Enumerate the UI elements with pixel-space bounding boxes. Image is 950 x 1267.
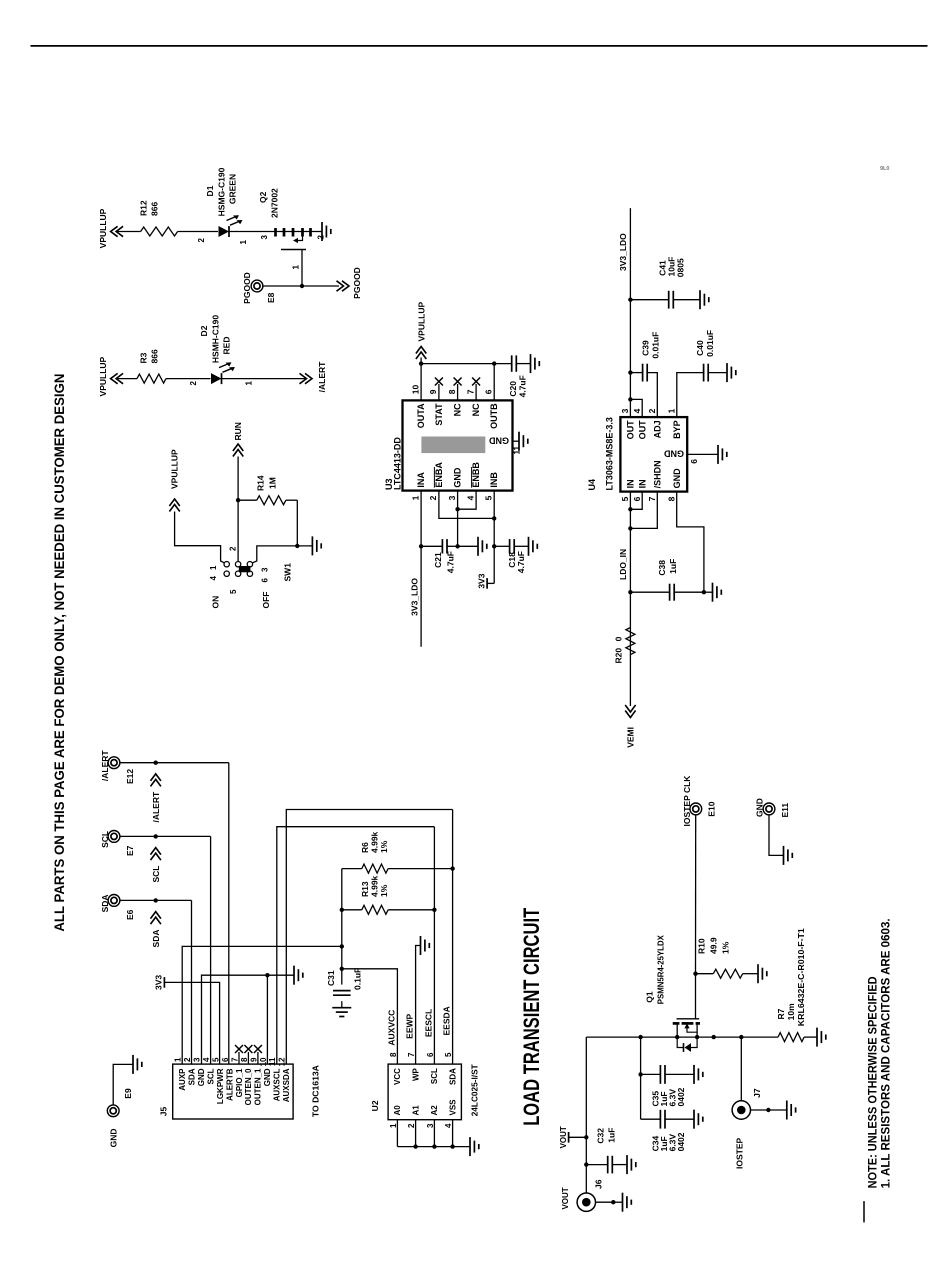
wire J5 pin4 SCL bbox=[210, 836, 212, 1064]
svg-text:11: 11 bbox=[268, 1057, 277, 1066]
svg-text:1: 1 bbox=[410, 495, 420, 500]
svg-text:0.01uF: 0.01uF bbox=[705, 330, 715, 357]
ground (SW1) bbox=[311, 536, 313, 555]
net flag VPULLUP (chain D2) bbox=[98, 356, 123, 396]
svg-text:0: 0 bbox=[613, 636, 623, 641]
wire VPULLUP to R3 bbox=[116, 378, 137, 380]
svg-text:2: 2 bbox=[428, 495, 438, 500]
svg-text:5: 5 bbox=[444, 1052, 453, 1057]
svg-text:5: 5 bbox=[229, 589, 238, 594]
svg-text:OUT: OUT bbox=[637, 420, 647, 440]
svg-text:PGOOD: PGOOD bbox=[242, 272, 252, 304]
svg-text:OFF: OFF bbox=[261, 592, 271, 609]
capacitor C40 bbox=[677, 330, 727, 417]
capacitor C21 bbox=[421, 539, 458, 573]
resistor R14 bbox=[238, 475, 297, 505]
svg-text:ENBB: ENBB bbox=[471, 462, 481, 488]
resistor R12 bbox=[139, 200, 178, 236]
svg-text:6: 6 bbox=[689, 459, 699, 464]
svg-text:6: 6 bbox=[483, 389, 493, 394]
svg-text:NC: NC bbox=[471, 403, 481, 416]
wire J5 pin2 SDA bbox=[191, 900, 193, 1064]
svg-text:2: 2 bbox=[229, 546, 238, 551]
capacitor C31 bbox=[326, 968, 363, 995]
svg-text:D1: D1 bbox=[205, 185, 215, 196]
ground (R10) bbox=[757, 964, 759, 983]
wire 3V3_LDO from U3 pin1 bbox=[420, 491, 422, 647]
svg-text:EEWP: EEWP bbox=[405, 1013, 415, 1038]
svg-text:0.01uF: 0.01uF bbox=[650, 332, 660, 359]
svg-text:OUTEN_0: OUTEN_0 bbox=[244, 1068, 253, 1105]
svg-text:2: 2 bbox=[317, 234, 326, 239]
svg-text:C40: C40 bbox=[695, 340, 705, 356]
net flag PGOOD bbox=[337, 267, 363, 299]
ground (J6) bbox=[622, 1193, 624, 1212]
svg-text:TO DC1613A: TO DC1613A bbox=[311, 1065, 321, 1117]
svg-text:0402: 0402 bbox=[676, 1132, 686, 1151]
ground (Q2 source) bbox=[318, 222, 331, 241]
svg-text:ENBA: ENBA bbox=[434, 462, 444, 488]
svg-text:A0: A0 bbox=[393, 1105, 402, 1116]
ground (C34) bbox=[693, 1110, 695, 1129]
svg-text:VOUT: VOUT bbox=[559, 1126, 568, 1148]
svg-text:VSS: VSS bbox=[448, 1099, 457, 1116]
wire J5 pin3 GND bbox=[202, 975, 295, 1064]
ground (E11) bbox=[783, 846, 785, 865]
wire J5 pin6 ALERTB bbox=[228, 763, 230, 1064]
svg-text:1: 1 bbox=[389, 1123, 398, 1128]
wire EESCL U2 pin6 bbox=[433, 827, 435, 1064]
svg-text:8: 8 bbox=[389, 1052, 398, 1057]
ground (C35) bbox=[693, 1065, 695, 1084]
svg-text:2: 2 bbox=[183, 1057, 192, 1062]
wire /SHDN U4 pin7 bbox=[630, 492, 657, 529]
svg-text:OUTB: OUTB bbox=[489, 403, 499, 429]
svg-text:IOSTEP CLK: IOSTEP CLK bbox=[682, 775, 692, 827]
svg-text:10: 10 bbox=[259, 1057, 268, 1066]
net flag SCL bbox=[151, 848, 161, 883]
net flag /ALERT (chain D2) bbox=[300, 361, 328, 393]
svg-text:E6: E6 bbox=[125, 909, 135, 920]
ground (J5 GND) bbox=[293, 966, 295, 985]
wire RUN to SW1 pin2 bbox=[237, 457, 239, 562]
wire SDA net bbox=[120, 899, 192, 901]
svg-text:2: 2 bbox=[407, 1123, 416, 1128]
svg-text:VCC: VCC bbox=[393, 1068, 402, 1085]
svg-text:4: 4 bbox=[632, 408, 642, 413]
svg-text:3V3: 3V3 bbox=[477, 573, 487, 588]
svg-text:1%: 1% bbox=[379, 884, 389, 897]
ground (EEWP) bbox=[420, 936, 422, 955]
svg-text:STAT: STAT bbox=[434, 403, 444, 426]
svg-text:R13: R13 bbox=[360, 881, 370, 897]
wire AUXP pullup rail bbox=[341, 1001, 343, 1008]
svg-text:3: 3 bbox=[447, 495, 457, 500]
svg-text:A1: A1 bbox=[411, 1105, 420, 1116]
turret E12 /ALERT bbox=[100, 750, 135, 784]
wire R12 to D1 bbox=[178, 231, 218, 233]
wire J5 pin12 AUXSDA bbox=[286, 810, 452, 1065]
svg-text:E11: E11 bbox=[780, 803, 790, 818]
svg-text:4.7uF: 4.7uF bbox=[446, 551, 456, 573]
wire J5 pin1 AUXP bbox=[182, 946, 342, 1064]
ground (C31) bbox=[332, 1007, 351, 1009]
svg-text:GND: GND bbox=[672, 468, 682, 489]
svg-text:2: 2 bbox=[197, 237, 206, 242]
net flag VPULLUP (SW1) bbox=[169, 449, 179, 512]
regulator U4 LT3063-MS8E-3.3 bbox=[587, 408, 687, 501]
svg-text:R6: R6 bbox=[360, 842, 370, 853]
svg-text:VOUT: VOUT bbox=[561, 1187, 570, 1209]
ground (C18) bbox=[528, 537, 530, 556]
svg-text:11: 11 bbox=[513, 445, 522, 454]
svg-text:SCL: SCL bbox=[430, 1068, 439, 1084]
svg-text:IOSTEP: IOSTEP bbox=[735, 1137, 745, 1169]
diode D2 (LED red) bbox=[189, 315, 254, 386]
svg-text:7: 7 bbox=[230, 1057, 239, 1062]
pin 11 ground U3 bbox=[513, 432, 528, 455]
wire D1 to Q2 bbox=[229, 231, 273, 233]
svg-text:GND: GND bbox=[109, 1129, 119, 1148]
svg-text:GREEN: GREEN bbox=[228, 174, 238, 204]
svg-text:1: 1 bbox=[209, 565, 218, 570]
net flag VPULLUP (chain D1) bbox=[98, 208, 123, 248]
svg-text:EESDA: EESDA bbox=[442, 1006, 452, 1035]
net flag /ALERT (E12) bbox=[151, 774, 161, 823]
wire PGOOD bbox=[263, 285, 339, 287]
wire U2 pins 1-4 to ground rail bbox=[396, 1120, 398, 1147]
resistor R6 bbox=[342, 831, 453, 873]
svg-text:AUXP: AUXP bbox=[178, 1068, 187, 1091]
border rule bbox=[31, 45, 928, 47]
svg-text:PSMN5R4-25YLDX: PSMN5R4-25YLDX bbox=[655, 935, 665, 1004]
svg-text:8: 8 bbox=[240, 1057, 249, 1062]
svg-text:0.1uF: 0.1uF bbox=[353, 968, 363, 990]
svg-text:R20: R20 bbox=[614, 648, 624, 664]
svg-text:3: 3 bbox=[426, 1123, 435, 1128]
wire E11 to ground bbox=[769, 815, 784, 856]
svg-text:SW1: SW1 bbox=[283, 563, 293, 582]
svg-text:7: 7 bbox=[407, 1052, 416, 1057]
capacitor C35 bbox=[641, 1065, 694, 1107]
ground (C38) bbox=[704, 583, 721, 602]
svg-text:4: 4 bbox=[444, 1123, 453, 1128]
svg-text:5: 5 bbox=[483, 495, 493, 500]
wire R3 to D2 bbox=[166, 378, 211, 380]
svg-text:8: 8 bbox=[667, 496, 677, 501]
svg-text:LDO_IN: LDO_IN bbox=[618, 549, 628, 580]
capacitor C39 bbox=[630, 332, 660, 417]
no-connect pins U3 9,8,7 bbox=[435, 378, 480, 401]
wire VPULLUP to SW1 pin1 bbox=[175, 512, 225, 563]
wire J7 to ground bbox=[751, 1109, 769, 1111]
wire SCL net bbox=[120, 835, 211, 837]
jack J7 IOSTEP bbox=[732, 1037, 762, 1169]
svg-text:3V3_LDO: 3V3_LDO bbox=[618, 233, 628, 271]
svg-text:AUXVCC: AUXVCC bbox=[387, 1010, 397, 1046]
ground (C40) bbox=[726, 363, 728, 382]
wire J6 to ground bbox=[596, 1201, 614, 1203]
wire J5 pin11 AUXSCL bbox=[277, 827, 435, 1064]
svg-text:GND: GND bbox=[197, 1068, 206, 1086]
pin 6 ground U4 bbox=[687, 445, 727, 464]
ground (R7) bbox=[816, 1028, 818, 1047]
wire OUTA rail bbox=[420, 364, 422, 401]
wire VOUT bus down bbox=[586, 1036, 677, 1038]
svg-text:OUTEN_1: OUTEN_1 bbox=[254, 1068, 263, 1105]
wire ENBA U3 pin2 bbox=[439, 491, 494, 519]
svg-text:5: 5 bbox=[620, 496, 630, 501]
svg-text:6: 6 bbox=[426, 1052, 435, 1057]
svg-text:1uF: 1uF bbox=[607, 1128, 617, 1143]
capacitor C41 bbox=[630, 257, 700, 309]
svg-text:E8: E8 bbox=[266, 292, 276, 303]
svg-text:LGKPWR: LGKPWR bbox=[216, 1068, 225, 1104]
svg-text:4: 4 bbox=[202, 1057, 211, 1062]
svg-text:1%: 1% bbox=[379, 840, 389, 853]
svg-text:KRL6432E-C-R010-F-T1: KRL6432E-C-R010-F-T1 bbox=[796, 928, 806, 1026]
resistor R3 bbox=[137, 349, 166, 383]
net flag SDA bbox=[151, 912, 161, 948]
svg-text:7: 7 bbox=[465, 389, 475, 394]
svg-text:BYP: BYP bbox=[672, 420, 682, 439]
svg-text:1: 1 bbox=[245, 380, 254, 385]
turret E7 SCL bbox=[100, 831, 135, 857]
net flag VEMI bbox=[625, 705, 635, 748]
power tap 3V3 (U3) bbox=[477, 573, 495, 588]
svg-text:10: 10 bbox=[410, 384, 420, 394]
wire OUT U4 pin4 bbox=[630, 399, 642, 417]
svg-text:866: 866 bbox=[150, 202, 160, 216]
capacitor C18 bbox=[494, 539, 528, 573]
svg-text:U4: U4 bbox=[587, 479, 597, 491]
jack J6 VOUT bbox=[561, 1179, 604, 1211]
svg-text:VPULLUP: VPULLUP bbox=[170, 449, 180, 489]
svg-text:6: 6 bbox=[261, 578, 270, 583]
svg-text:E12: E12 bbox=[125, 769, 135, 784]
svg-text:R3: R3 bbox=[139, 352, 149, 363]
svg-text:HSMG-C190: HSMG-C190 bbox=[217, 167, 227, 216]
svg-text:C21: C21 bbox=[433, 552, 443, 568]
svg-text:D2: D2 bbox=[199, 325, 209, 336]
svg-text:GND: GND bbox=[664, 449, 685, 459]
svg-text:GND: GND bbox=[754, 798, 764, 817]
svg-text:1: 1 bbox=[239, 239, 248, 244]
svg-text:8: 8 bbox=[447, 389, 457, 394]
svg-text:9: 9 bbox=[428, 389, 438, 394]
svg-text:9: 9 bbox=[249, 1057, 258, 1062]
wire Q1 source bus bbox=[697, 1036, 778, 1038]
svg-text:ADJ: ADJ bbox=[652, 420, 662, 438]
net flag RUN bbox=[233, 422, 243, 456]
svg-text:7: 7 bbox=[647, 496, 657, 501]
ground (U2) bbox=[469, 1137, 471, 1156]
svg-text:NOTE: UNLESS OTHERWISE SPECIFI: NOTE: UNLESS OTHERWISE SPECIFIED bbox=[868, 976, 880, 1188]
wire OUT rail 3V3_LDO bbox=[629, 208, 631, 417]
svg-text:C38: C38 bbox=[657, 560, 667, 576]
wire INB U3 pin5 bbox=[493, 491, 495, 584]
svg-text:C31: C31 bbox=[326, 970, 336, 986]
svg-text:GND: GND bbox=[263, 1068, 272, 1086]
svg-text:IN: IN bbox=[626, 479, 636, 488]
capacitor C34 bbox=[641, 1110, 694, 1152]
resistor R10 bbox=[696, 937, 759, 978]
svg-text:LT3063-MS8E-3.3: LT3063-MS8E-3.3 bbox=[605, 417, 615, 490]
svg-text:U2: U2 bbox=[370, 1100, 380, 1111]
svg-text:RED: RED bbox=[222, 337, 232, 355]
ground (C20) bbox=[530, 354, 532, 373]
connector J5 bbox=[159, 1057, 321, 1119]
wire LDO_IN rail bbox=[629, 492, 631, 706]
resistor R20 bbox=[613, 628, 635, 664]
wire IN U4 pin6 bbox=[630, 492, 642, 510]
svg-text:GND: GND bbox=[453, 467, 463, 488]
svg-text:1M: 1M bbox=[268, 477, 278, 489]
svg-text:E10: E10 bbox=[707, 801, 717, 816]
svg-text:SDA: SDA bbox=[188, 1068, 197, 1085]
svg-text:OUTA: OUTA bbox=[416, 403, 426, 428]
ground (C41) bbox=[699, 290, 701, 309]
svg-text:1%: 1% bbox=[721, 941, 731, 954]
svg-text:E7: E7 bbox=[125, 845, 135, 856]
wire EEWP U2 pin7 bbox=[416, 946, 421, 1065]
wire ENBB U3 pin4 bbox=[458, 491, 477, 510]
svg-text:6: 6 bbox=[632, 496, 642, 501]
wire C34 C35 branch bbox=[640, 1037, 642, 1119]
ground (J7) bbox=[786, 1101, 788, 1120]
svg-text:LTC4413-DD: LTC4413-DD bbox=[393, 437, 403, 490]
svg-text:ALL PARTS ON THIS PAGE ARE FOR: ALL PARTS ON THIS PAGE ARE FOR DEMO ONLY… bbox=[52, 374, 67, 932]
svg-text:OUT: OUT bbox=[626, 420, 636, 440]
svg-text:EESCL: EESCL bbox=[424, 1009, 434, 1037]
svg-text:Q2: Q2 bbox=[258, 191, 268, 203]
footer tick bbox=[863, 1201, 865, 1222]
svg-text:3V3_LDO: 3V3_LDO bbox=[410, 578, 420, 616]
svg-text:R10: R10 bbox=[697, 938, 707, 954]
svg-text:12: 12 bbox=[278, 1057, 287, 1066]
svg-text:1uF: 1uF bbox=[668, 559, 678, 574]
wire E9 to ground bbox=[113, 1064, 133, 1105]
wire VOUT rail bbox=[585, 1037, 587, 1193]
svg-text:R14: R14 bbox=[256, 475, 266, 491]
svg-text:VPULLUP: VPULLUP bbox=[416, 302, 426, 342]
transistor Q1 bbox=[644, 935, 700, 1052]
svg-text:VPULLUP: VPULLUP bbox=[98, 208, 108, 248]
svg-text:INB: INB bbox=[489, 472, 499, 488]
svg-text:GND: GND bbox=[489, 436, 510, 446]
svg-text:2: 2 bbox=[189, 380, 198, 385]
svg-text:LOAD TRANSIENT CIRCUIT: LOAD TRANSIENT CIRCUIT bbox=[519, 907, 544, 1125]
svg-text:4: 4 bbox=[209, 576, 218, 581]
diode D1 (LED green) bbox=[197, 167, 248, 244]
svg-text:1: 1 bbox=[174, 1057, 183, 1062]
svg-text:SCL: SCL bbox=[206, 1068, 215, 1084]
svg-text:HSMH-C190: HSMH-C190 bbox=[211, 315, 221, 363]
svg-text:ON: ON bbox=[211, 596, 221, 609]
turret E6 SDA bbox=[100, 894, 135, 920]
svg-text:3: 3 bbox=[193, 1057, 202, 1062]
power tap VOUT bbox=[559, 1126, 586, 1148]
svg-text:R12: R12 bbox=[139, 200, 149, 216]
svg-text:Q1: Q1 bbox=[644, 991, 654, 1003]
op-amp U3 LTC4413-DD bbox=[384, 384, 513, 500]
wire R14 to ground rail bbox=[296, 500, 298, 546]
svg-text:VPULLUP: VPULLUP bbox=[98, 356, 108, 396]
wire EESDA U2 pin5 bbox=[452, 810, 454, 1065]
svg-text:0402: 0402 bbox=[676, 1087, 686, 1106]
wire AUXVCC U2 pin8 bbox=[342, 969, 398, 1064]
svg-text:1: 1 bbox=[292, 264, 301, 269]
svg-text:R7: R7 bbox=[776, 1008, 786, 1019]
svg-text:J6: J6 bbox=[594, 1179, 604, 1189]
svg-text:2: 2 bbox=[647, 408, 657, 413]
no-connect pins J5 7,8,9 bbox=[235, 1045, 262, 1064]
svg-text:3: 3 bbox=[620, 408, 630, 413]
svg-text:4.7uF: 4.7uF bbox=[516, 551, 526, 573]
svg-text:/ALERT: /ALERT bbox=[151, 791, 161, 823]
ground (C32) bbox=[626, 1155, 628, 1174]
svg-text:ALERTB: ALERTB bbox=[225, 1068, 234, 1101]
svg-text:1. ALL RESISTORS AND CAPACITO: 1. ALL RESISTORS AND CAPACITORS ARE 0603… bbox=[881, 918, 893, 1188]
svg-text:PGOOD: PGOOD bbox=[352, 267, 362, 299]
wire SW1 pin3 to ground bbox=[253, 546, 313, 563]
turret E8 PGOOD bbox=[242, 272, 276, 304]
transistor Q2 bbox=[258, 188, 326, 286]
svg-text:RUN: RUN bbox=[233, 422, 243, 440]
svg-text:SCL: SCL bbox=[151, 866, 161, 883]
svg-text:/SHDN: /SHDN bbox=[653, 460, 663, 488]
wire J5 pin10 GND bbox=[266, 975, 268, 1064]
svg-text:/ALERT: /ALERT bbox=[317, 361, 327, 393]
svg-text:A2: A2 bbox=[430, 1105, 439, 1116]
svg-text:/ALERT: /ALERT bbox=[100, 750, 110, 782]
wire /ALERT net bbox=[120, 762, 229, 764]
svg-text:4: 4 bbox=[465, 495, 475, 500]
svg-text:9L0: 9L0 bbox=[880, 166, 889, 172]
turret E11 GND bbox=[754, 798, 790, 817]
svg-text:SCL: SCL bbox=[100, 831, 110, 848]
svg-text:0805: 0805 bbox=[676, 258, 686, 277]
svg-text:866: 866 bbox=[150, 349, 160, 363]
capacitor C20 bbox=[494, 355, 530, 397]
wire VPULLUP to R12 bbox=[116, 231, 141, 233]
svg-text:SDA: SDA bbox=[100, 894, 110, 912]
svg-text:3: 3 bbox=[260, 234, 269, 239]
wire J5 pin5 LGKPWR bbox=[164, 982, 219, 1064]
svg-text:J7: J7 bbox=[752, 1088, 762, 1098]
svg-text:C32: C32 bbox=[596, 1128, 606, 1144]
svg-text:IN: IN bbox=[637, 479, 647, 488]
svg-text:WP: WP bbox=[411, 1067, 420, 1081]
svg-text:2N7002: 2N7002 bbox=[270, 188, 280, 218]
net flag VPULLUP (U3) bbox=[416, 302, 427, 364]
switch SW1 bbox=[209, 546, 293, 609]
svg-text:C39: C39 bbox=[641, 340, 651, 356]
svg-text:NC: NC bbox=[453, 403, 463, 416]
svg-text:AUXSCL: AUXSCL bbox=[273, 1068, 282, 1101]
wire E10 to Q1 gate bbox=[695, 815, 697, 974]
turret E9 GND bbox=[107, 1088, 133, 1147]
ground (E9) bbox=[132, 1055, 134, 1074]
svg-text:1: 1 bbox=[667, 408, 677, 413]
svg-text:SDA: SDA bbox=[448, 1068, 457, 1085]
wire D2 to /ALERT bbox=[222, 378, 307, 380]
svg-text:GPIO_1: GPIO_1 bbox=[235, 1068, 244, 1097]
capacitor C38 bbox=[630, 559, 704, 601]
svg-text:INA: INA bbox=[416, 472, 426, 488]
svg-text:4.7uF: 4.7uF bbox=[517, 375, 527, 397]
wire Q1 gate bbox=[695, 974, 697, 1019]
